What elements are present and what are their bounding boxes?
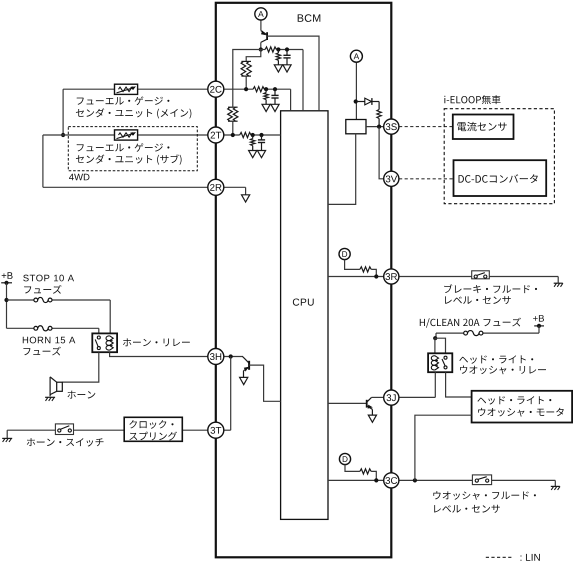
label STOP fuse line2 — [24, 285, 61, 294]
horn relay coil — [106, 336, 110, 350]
label +B top — [2, 272, 13, 279]
wire switch to motor box — [446, 372, 472, 397]
label horn switch — [27, 438, 104, 446]
label fuel gauge sender main line2 — [76, 108, 191, 118]
circle D ref 1 — [339, 248, 350, 259]
wire D1 to 3R — [345, 260, 360, 270]
ground chassis at horn switch — [6, 430, 8, 438]
label horn — [67, 391, 95, 399]
label washer fluid line1 — [433, 491, 536, 500]
capacitor C1 to ground — [274, 89, 276, 95]
wire 2T row left — [43, 134, 115, 136]
LIN legend label — [521, 554, 540, 561]
DC-DC converter box — [454, 160, 547, 196]
ground chassis 3R end — [554, 282, 563, 284]
clock spring box — [124, 417, 182, 441]
node C1 top — [273, 87, 277, 91]
resistor R7 vertical — [377, 110, 381, 119]
wire upper row — [261, 49, 265, 51]
label washer motor line1 — [477, 396, 551, 404]
circle A ref 2 — [350, 50, 362, 62]
connector 3R — [384, 269, 399, 284]
node Q1 output — [259, 47, 263, 51]
wire 2R row — [43, 186, 208, 188]
resistor R5 on 2T row — [240, 132, 251, 137]
i-ELOOP dashed box — [444, 109, 554, 204]
dashed wire 3S to current sensor — [399, 126, 453, 128]
node 2C-RP1 — [244, 87, 248, 91]
wire Q1 base to CPU — [267, 36, 319, 111]
wire feed to coil — [435, 337, 436, 339]
resistor R9 — [360, 469, 371, 474]
+B terminal tick — [1, 282, 12, 284]
wire D2 to 3C — [345, 465, 360, 472]
label horn relay — [123, 338, 190, 346]
wire coil to 3J — [434, 372, 436, 397]
resistor pair RP2 — [228, 106, 238, 108]
horn relay switch contacts — [97, 336, 100, 339]
wire node to left drop — [233, 50, 261, 107]
wire Q2 right to CPU — [249, 365, 281, 401]
LIN legend dashed sample — [486, 556, 514, 558]
transistor Q1 — [261, 31, 267, 35]
dashed wire 3V to DC-DC — [399, 178, 453, 180]
node STOP branch — [4, 298, 8, 302]
current sensor box — [453, 115, 514, 140]
wire 3R row inner — [328, 276, 384, 278]
node washer relay feed — [433, 336, 437, 340]
node 3H — [229, 354, 233, 358]
wire 3H inner — [224, 356, 243, 358]
node R2 top — [264, 87, 268, 91]
wire horn relay to horn — [62, 352, 99, 382]
node R4 top — [276, 47, 280, 51]
circle D ref 2 — [339, 453, 350, 464]
label 4WD — [69, 174, 89, 181]
resistor R8 — [360, 267, 371, 272]
washer relay box — [428, 353, 452, 372]
resistor pair RP1 — [241, 60, 251, 62]
resistor R3 upper row — [265, 47, 276, 52]
wire 3T row — [7, 429, 55, 431]
label HORN fuse — [23, 337, 76, 344]
washer motor box — [472, 391, 572, 423]
label fuel gauge sender main line1 — [77, 96, 170, 105]
washer relay coil — [431, 356, 435, 370]
label fuel gauge sender sub line1 — [77, 143, 170, 152]
horn speaker — [57, 382, 63, 391]
node 3S junction — [377, 125, 381, 129]
node R6 top — [251, 133, 255, 137]
label clock spring line1 — [129, 420, 173, 429]
wire 3C row inner — [328, 479, 384, 481]
capacitor C2 to ground — [286, 50, 288, 56]
node C3 top — [259, 133, 263, 137]
wire box to 3S — [366, 126, 384, 128]
node C2 top — [285, 47, 289, 51]
label fuel gauge sender sub line2 — [76, 154, 182, 164]
resistor R4 to ground — [277, 50, 279, 53]
BCM label — [298, 14, 321, 22]
resistor R1 on 2C row — [253, 87, 264, 92]
diode D1 — [356, 101, 365, 103]
wire 2C inner — [224, 88, 253, 90]
+B right terminal — [534, 325, 544, 327]
wire motor link — [415, 415, 472, 480]
label washer relay line2 — [460, 366, 546, 375]
label brake fluid line1 — [444, 284, 537, 293]
relay coil box U2 — [346, 120, 366, 134]
brake fluid level switch — [472, 271, 490, 279]
wire 3R row outer — [399, 276, 472, 278]
wire left drop 2C to 2T — [62, 89, 64, 135]
transistor Q3 — [366, 400, 368, 408]
fuse H/CLEAN 20A — [464, 331, 468, 335]
label washer relay line1 — [459, 355, 533, 363]
label current sensor — [457, 122, 506, 131]
node junction on 2T line — [61, 133, 65, 137]
node diode branch — [354, 99, 358, 103]
wire feed to switch — [435, 338, 445, 353]
connector 2C — [208, 81, 224, 97]
capacitor C3 to ground — [261, 135, 263, 140]
connector 3T — [208, 422, 224, 438]
wire H/CLEAN fuse row — [538, 326, 540, 333]
fuse STOP 10A — [34, 298, 38, 302]
transistor Q2 — [243, 357, 250, 364]
fuse HORN 15A — [34, 326, 38, 330]
BCM module box — [216, 3, 391, 558]
wire 2R inner — [224, 186, 246, 188]
ground arrow Q3 — [368, 415, 376, 422]
ground arrow 2R — [242, 195, 250, 202]
connector 3J — [384, 390, 399, 405]
ground arrow Q2 — [240, 377, 248, 384]
horn switch — [55, 424, 73, 435]
label DC-DC converter — [459, 174, 538, 183]
wire HORN fuse row — [7, 327, 34, 329]
label +B right — [533, 315, 544, 322]
wire node to 3V — [379, 127, 384, 179]
label washer fluid line2 — [434, 505, 500, 513]
node 3R — [374, 274, 378, 278]
label HORN fuse line2 — [23, 347, 60, 356]
label clock spring line2 — [129, 432, 177, 441]
wire Q3 base from CPU — [328, 402, 367, 404]
resistor R6 to ground — [252, 135, 254, 139]
wire box bottom to CPU — [328, 134, 356, 205]
connector 3H — [208, 349, 224, 365]
label washer motor line2 — [478, 408, 564, 417]
resistor R2 to ground — [265, 89, 267, 92]
wire RP2 to 2T node — [232, 121, 234, 135]
fuel gauge sender unit sub (variable resistor) — [115, 130, 138, 140]
circle A ref 1 — [255, 8, 267, 20]
connector 3V — [384, 171, 399, 186]
connector 3C — [384, 473, 399, 488]
wire 3J row right — [399, 396, 435, 398]
wire 2T left drop to 2R — [42, 135, 44, 187]
ground chassis at horn — [45, 396, 55, 398]
washer relay switch contacts — [444, 356, 447, 359]
connector 2T — [208, 127, 224, 143]
wire 3H to 3T link — [230, 357, 232, 431]
4WD dashed box — [68, 127, 197, 171]
label STOP fuse — [23, 275, 74, 282]
connector 2R — [208, 179, 224, 195]
label H/CLEAN fuse — [420, 318, 521, 328]
horn relay box — [92, 333, 117, 352]
wire +B vertical feed — [6, 283, 8, 329]
wire 2C row left — [63, 88, 114, 90]
connector 3S — [384, 119, 399, 134]
wire RP1 to 2C node — [245, 76, 247, 89]
node 2T-RP2 — [231, 133, 235, 137]
washer fluid level switch — [472, 475, 491, 485]
node 3C — [374, 478, 378, 482]
wire 3C row outer — [399, 479, 472, 481]
node motor link — [413, 478, 417, 482]
ground chassis 3C end — [551, 485, 560, 487]
wire Q3 collector to 3J — [372, 396, 384, 398]
wire 2T inner — [224, 134, 240, 136]
fuel gauge sender unit main (variable resistor) — [115, 84, 138, 94]
wire node jog to RP1 — [246, 50, 261, 62]
CPU block — [281, 111, 328, 520]
wire STOP fuse row — [7, 299, 34, 301]
label i-ELOOP — [444, 95, 500, 104]
wire from A1 to transistor Q1 — [260, 20, 262, 31]
wire Q1 collector to node — [260, 42, 262, 49]
label brake fluid line2 — [445, 296, 511, 304]
wire A2 down — [355, 62, 357, 119]
wire horn relay coil to 3H — [110, 352, 208, 356]
